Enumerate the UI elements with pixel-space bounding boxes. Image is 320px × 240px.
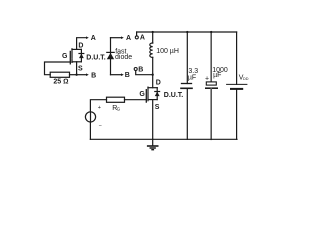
- svg-text:+: +: [98, 105, 101, 111]
- svg-text:G: G: [139, 91, 145, 98]
- svg-text:G: G: [117, 107, 121, 112]
- svg-text:B: B: [125, 72, 130, 79]
- svg-text:µF: µF: [213, 72, 221, 79]
- svg-text:D: D: [156, 80, 161, 87]
- svg-text:D.U.T.: D.U.T.: [164, 92, 184, 99]
- svg-text:D.U.T.: D.U.T.: [86, 54, 106, 61]
- svg-text:D: D: [78, 43, 83, 50]
- svg-text:S: S: [78, 65, 83, 72]
- svg-text:A: A: [126, 35, 131, 42]
- svg-text:B: B: [138, 67, 143, 74]
- svg-text:DD: DD: [243, 77, 249, 81]
- svg-text:+: +: [205, 75, 209, 82]
- svg-text:A: A: [140, 35, 145, 42]
- svg-text:−: −: [99, 124, 102, 130]
- svg-text:G: G: [62, 53, 68, 60]
- svg-text:A: A: [91, 35, 96, 42]
- svg-text:diode: diode: [115, 54, 132, 61]
- svg-text:100 µH: 100 µH: [156, 48, 179, 55]
- svg-text:25 Ω: 25 Ω: [53, 79, 68, 86]
- svg-text:µF: µF: [188, 75, 196, 82]
- svg-text:S: S: [155, 104, 160, 111]
- svg-text:B: B: [91, 73, 96, 80]
